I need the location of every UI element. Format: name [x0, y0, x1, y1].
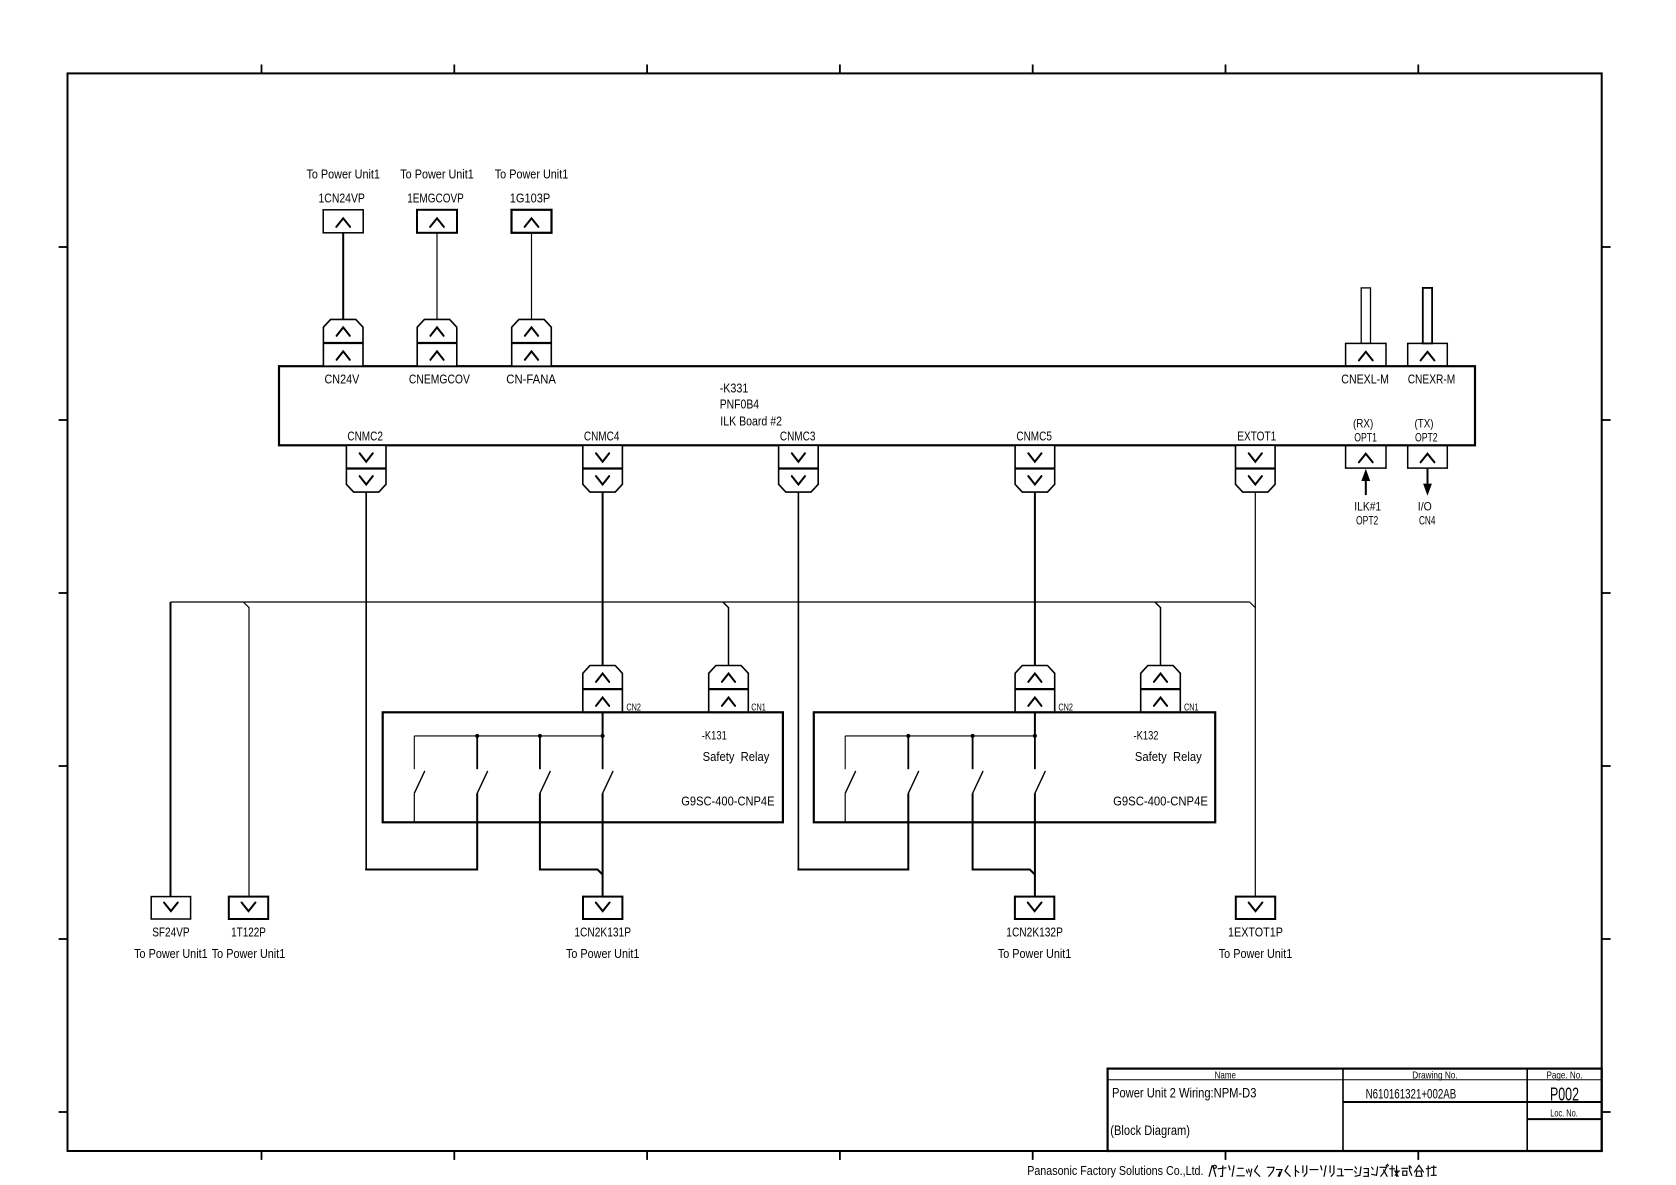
cable connector 1CN24VP	[323, 210, 363, 233]
wire 1EMGCOVP to board	[436, 233, 438, 320]
svg-text:OPT2: OPT2	[1415, 430, 1438, 444]
svg-text:Drawing No.: Drawing No.	[1412, 1070, 1457, 1082]
svg-text:(Block Diagram): (Block Diagram)	[1110, 1123, 1190, 1138]
switch 4 K132	[1035, 736, 1046, 896]
svg-text:I/O: I/O	[1418, 499, 1432, 513]
junction dot K131 sw3	[538, 734, 542, 738]
cable connector 1CN2K131P	[583, 897, 622, 919]
junction dot K131 sw2	[475, 734, 479, 738]
svg-text:G9SC-400-CNP4E: G9SC-400-CNP4E	[1113, 794, 1208, 809]
fiber cable CNEXL-M	[1361, 288, 1370, 344]
svg-text:OPT1: OPT1	[1354, 430, 1377, 444]
svg-text:Loc. No.: Loc. No.	[1550, 1108, 1578, 1120]
svg-text:-K331: -K331	[720, 381, 749, 395]
svg-text:1CN2K132P: 1CN2K132P	[1006, 925, 1063, 939]
ILK board -K331 outline	[279, 366, 1475, 445]
svg-text:To Power Unit1: To Power Unit1	[495, 167, 569, 181]
fiber cable CNEXR-M	[1423, 288, 1432, 344]
svg-text:1CN2K131P: 1CN2K131P	[574, 925, 631, 939]
svg-text:-K131: -K131	[702, 729, 727, 743]
svg-text:ILK#1: ILK#1	[1354, 499, 1381, 513]
safety relay -K131 outline	[383, 712, 783, 822]
junction dot K132 sw2	[906, 734, 910, 738]
svg-text:1T122P: 1T122P	[231, 925, 266, 939]
cable connector 1G103P	[512, 210, 552, 233]
board connector CNEMGCOV	[417, 319, 457, 366]
svg-text:PNF0B4: PNF0B4	[720, 398, 759, 412]
svg-text:To Power Unit1: To Power Unit1	[998, 947, 1072, 961]
wire CNMC3 down	[797, 492, 799, 869]
svg-text:-K132: -K132	[1134, 729, 1159, 743]
svg-text:1G103P: 1G103P	[510, 192, 551, 206]
svg-text:Safety Relay: Safety Relay	[703, 749, 770, 764]
board connector CNEXR-M	[1408, 343, 1448, 366]
svg-text:CNMC5: CNMC5	[1016, 430, 1052, 444]
wire bus y602 horizontal	[171, 601, 1250, 603]
svg-text:CNMC2: CNMC2	[347, 430, 383, 444]
svg-text:To Power Unit1: To Power Unit1	[566, 947, 640, 961]
wire 1G103P to board	[531, 233, 533, 320]
relay connector CN2 K132	[1015, 666, 1055, 713]
switch 2 K131	[477, 736, 488, 793]
board connector OPT2	[1408, 445, 1448, 468]
junction dot K131 sw4	[601, 734, 605, 738]
svg-text:N610161321+002AB: N610161321+002AB	[1366, 1086, 1457, 1101]
switch 2 K132	[908, 736, 919, 793]
board connector CNMC2	[346, 445, 386, 492]
svg-text:P002: P002	[1550, 1083, 1579, 1104]
svg-text:To Power Unit1: To Power Unit1	[1219, 947, 1293, 961]
svg-text:ILK Board #2: ILK Board #2	[720, 414, 782, 428]
svg-text:OPT2: OPT2	[1356, 514, 1379, 528]
switch 3 K131	[540, 736, 603, 875]
wire CNMC2 to switch2 K131	[366, 793, 477, 869]
cable connector SF24VP	[151, 897, 190, 919]
wire CNMC3 to switch2 K132	[798, 793, 908, 869]
wire CNMC4 to CN2 K131	[602, 492, 604, 665]
wire CNMC2 down	[365, 492, 367, 869]
caption Japanese company name (vector strokes)	[1209, 1164, 1436, 1176]
cable connector 1CN2K132P	[1015, 897, 1054, 919]
internal bus K131	[414, 735, 602, 737]
svg-text:SF24VP: SF24VP	[152, 925, 189, 939]
svg-text:1EXTOT1P: 1EXTOT1P	[1228, 925, 1283, 939]
junction dot K132 sw3	[971, 734, 975, 738]
svg-text:CNMC3: CNMC3	[780, 430, 816, 444]
internal bus K132	[845, 735, 1035, 737]
svg-text:1EMGCOVP: 1EMGCOVP	[407, 192, 464, 206]
arrow from OPT2 out to I/O CN4	[1423, 469, 1432, 496]
title block grid	[1108, 1069, 1602, 1151]
wire branch to CN1 K132	[1155, 602, 1161, 665]
svg-text:(TX): (TX)	[1415, 416, 1434, 430]
wire 1T122P drop	[243, 602, 249, 897]
board connector CNMC3	[779, 445, 819, 492]
switch 4 K131	[603, 736, 614, 897]
arrow from ILK#1 OPT2 into OPT1	[1361, 469, 1370, 495]
wire branch to CN1 K131	[723, 602, 729, 665]
svg-text:CNMC4: CNMC4	[584, 430, 620, 444]
board connector EXTOT1	[1236, 445, 1276, 492]
svg-text:Safety Relay: Safety Relay	[1135, 749, 1202, 764]
svg-text:Panasonic Factory Solutions Co: Panasonic Factory Solutions Co.,Ltd.	[1027, 1163, 1203, 1178]
wire EXTOT1 down	[1250, 492, 1256, 896]
board connector CNMC4	[583, 445, 623, 492]
relay connector CN1 K132	[1141, 666, 1181, 713]
junction dot K132 sw4	[1033, 734, 1037, 738]
svg-text:G9SC-400-CNP4E: G9SC-400-CNP4E	[681, 794, 774, 809]
relay connector CN2 K131	[583, 666, 623, 713]
svg-text:(RX): (RX)	[1353, 416, 1373, 430]
svg-text:Page. No.: Page. No.	[1547, 1070, 1583, 1082]
board connector CN-FANA	[512, 319, 552, 366]
board connector CNEXL-M	[1346, 343, 1386, 366]
svg-text:CNEMGCOV: CNEMGCOV	[409, 372, 471, 386]
wire CN2 drop to bus K132	[1034, 712, 1036, 736]
svg-text:To Power Unit1: To Power Unit1	[306, 167, 380, 181]
svg-text:EXTOT1: EXTOT1	[1237, 430, 1276, 444]
svg-text:To Power Unit1: To Power Unit1	[400, 167, 474, 181]
svg-text:CNEXR-M: CNEXR-M	[1408, 372, 1456, 386]
cable connector 1EMGCOVP	[417, 210, 457, 233]
svg-text:To Power Unit1: To Power Unit1	[212, 947, 286, 961]
board connector CNMC5	[1015, 445, 1055, 492]
svg-text:CNEXL-M: CNEXL-M	[1341, 372, 1389, 386]
switch 1 K131	[414, 736, 425, 822]
svg-text:To Power Unit1: To Power Unit1	[134, 947, 208, 961]
wire SF24VP drop	[170, 602, 172, 897]
relay connector CN1 K131	[709, 666, 749, 713]
board connector CN24V	[323, 319, 363, 366]
cable connector 1T122P	[229, 897, 268, 919]
svg-text:1CN24VP: 1CN24VP	[319, 192, 365, 206]
wire CN2 drop to bus K131	[602, 712, 604, 736]
svg-text:Name: Name	[1215, 1070, 1236, 1082]
cable connector 1EXTOT1P	[1236, 897, 1275, 919]
wire 1CN24VP to board	[342, 233, 344, 320]
svg-text:CN-FANA: CN-FANA	[506, 372, 556, 386]
wire CNMC5 to CN2 K132	[1034, 492, 1036, 665]
board connector OPT1	[1346, 445, 1386, 468]
svg-text:CN4: CN4	[1419, 514, 1436, 528]
svg-text:Power Unit 2 Wiring:NPM-D3: Power Unit 2 Wiring:NPM-D3	[1112, 1085, 1257, 1101]
safety relay -K132 outline	[814, 712, 1215, 822]
switch 3 K132	[973, 736, 1035, 875]
switch 1 K132	[845, 736, 856, 822]
svg-text:CN24V: CN24V	[325, 372, 360, 386]
